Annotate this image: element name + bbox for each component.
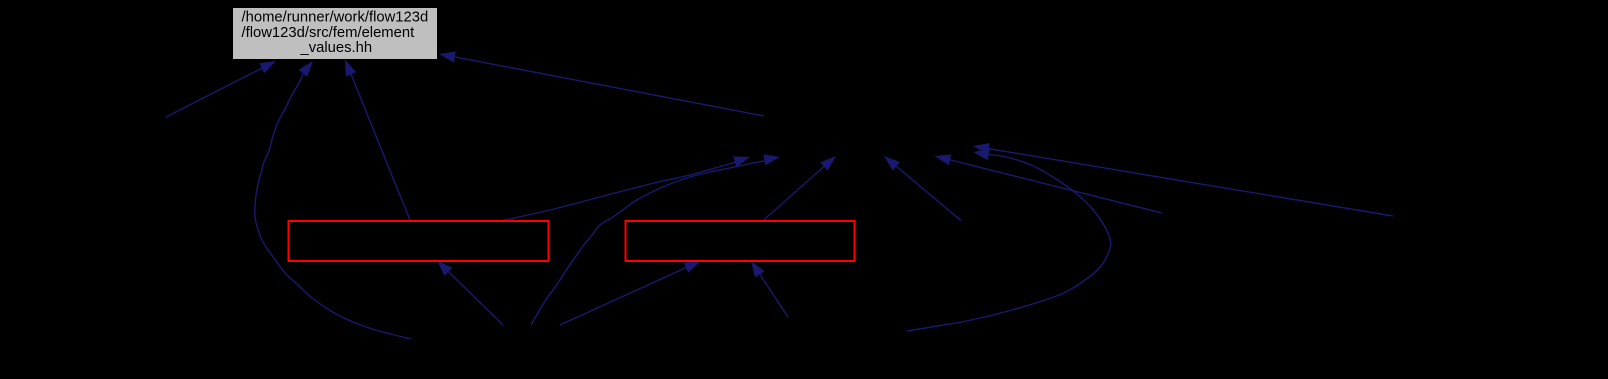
svg-text:/home/runner/work/flow123d: /home/runner/work/flow123d xyxy=(242,10,429,26)
svg-text:_values.hh: _values.hh xyxy=(300,40,373,56)
svg-text:/flow123d/src/fem/element: /flow123d/src/fem/element xyxy=(242,25,415,41)
